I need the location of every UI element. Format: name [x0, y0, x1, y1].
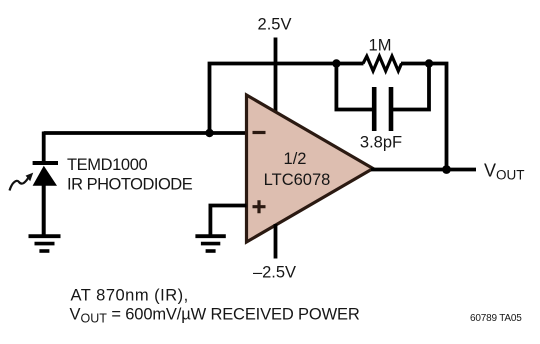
wire: input net from photodiode to inverting input: [44, 131, 247, 135]
svg-text:1M: 1M: [369, 37, 392, 55]
node: junction dot feedback right: [425, 59, 433, 67]
label TEMD1000: [67, 156, 147, 174]
wire: +2.5V supply drop to op-amp: [274, 38, 278, 114]
caption line 2: VOUT = 600mV/uW RECEIVED POWER: [70, 306, 360, 326]
ground: op-amp non-inverting input: [195, 236, 225, 251]
wire: -2.5V supply from op-amp bottom: [274, 224, 278, 259]
resistor R 1M: [363, 56, 402, 71]
label VOUT node: [484, 161, 525, 183]
wire: capacitor right branch: [393, 64, 429, 110]
label figure number 60789 TA05: [470, 313, 522, 324]
wire: op-amp output to VOUT: [371, 168, 476, 172]
svg-text:2.5V: 2.5V: [258, 16, 292, 34]
pin: non-inverting input plus sign: [253, 200, 266, 213]
label 1M: [369, 37, 392, 55]
op-amp U1 1/2 LTC6078: [247, 95, 374, 242]
svg-text:VOUT: VOUT: [484, 161, 525, 183]
svg-text:LTC6078: LTC6078: [264, 171, 331, 189]
light arrow into photodiode: [10, 173, 34, 191]
svg-text:VOUT = 600mV/µW RECEIVED POWER: VOUT = 600mV/µW RECEIVED POWER: [70, 306, 360, 326]
label op-amp LTC6078: [264, 171, 331, 189]
wire: capacitor left branch: [336, 64, 372, 110]
wire: top run right of resistor down to output: [401, 64, 447, 170]
svg-text:3.8pF: 3.8pF: [360, 134, 402, 152]
wire: feedback left vertical and top run to resistor: [210, 64, 364, 134]
node: junction dot feedback left: [332, 59, 340, 67]
svg-text:AT 870nm (IR),: AT 870nm (IR),: [71, 287, 189, 305]
label IR PHOTODIODE: [67, 176, 193, 194]
caption line 1: AT 870nm (IR),: [71, 287, 189, 305]
svg-text:TEMD1000: TEMD1000: [67, 156, 147, 174]
capacitor C 3.8pF: [374, 87, 391, 131]
svg-text:60789 TA05: 60789 TA05: [470, 313, 522, 324]
svg-text:IR PHOTODIODE: IR PHOTODIODE: [67, 176, 193, 194]
label op-amp 1/2: [284, 150, 307, 168]
node: junction dot at inverting input: [205, 129, 213, 137]
node: junction dot at output: [442, 165, 451, 174]
ground: photodiode anode: [29, 236, 61, 251]
svg-text:–2.5V: –2.5V: [253, 264, 296, 282]
svg-text:1/2: 1/2: [284, 150, 307, 168]
wire: non-inverting input to ground: [210, 206, 246, 235]
label 2.5V supply: [258, 16, 292, 34]
label -2.5V supply: [253, 264, 296, 282]
pin: inverting input minus sign: [253, 131, 266, 134]
photodiode D1 TEMD1000: [33, 132, 58, 235]
label 3.8pF: [360, 134, 402, 152]
